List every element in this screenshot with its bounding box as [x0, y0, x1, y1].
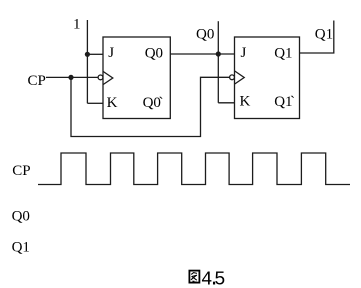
svg-text:K: K [107, 95, 118, 111]
svg-text:CP: CP [12, 163, 30, 179]
svg-text:Q1: Q1 [315, 26, 333, 42]
svg-text:Q1: Q1 [12, 240, 30, 256]
svg-text:CP: CP [28, 73, 46, 89]
svg-text:5: 5 [214, 268, 225, 288]
svg-text:K: K [240, 94, 251, 110]
svg-text:1: 1 [73, 17, 81, 33]
svg-text:Q0`: Q0` [143, 95, 164, 111]
svg-text:Q1: Q1 [274, 45, 292, 61]
svg-text:Q0: Q0 [12, 209, 30, 225]
svg-text:J: J [241, 45, 247, 61]
svg-text:Q0: Q0 [145, 45, 163, 61]
svg-text:Q1`: Q1` [274, 94, 295, 110]
svg-text:Q0: Q0 [196, 27, 214, 43]
svg-text:J: J [108, 45, 114, 61]
